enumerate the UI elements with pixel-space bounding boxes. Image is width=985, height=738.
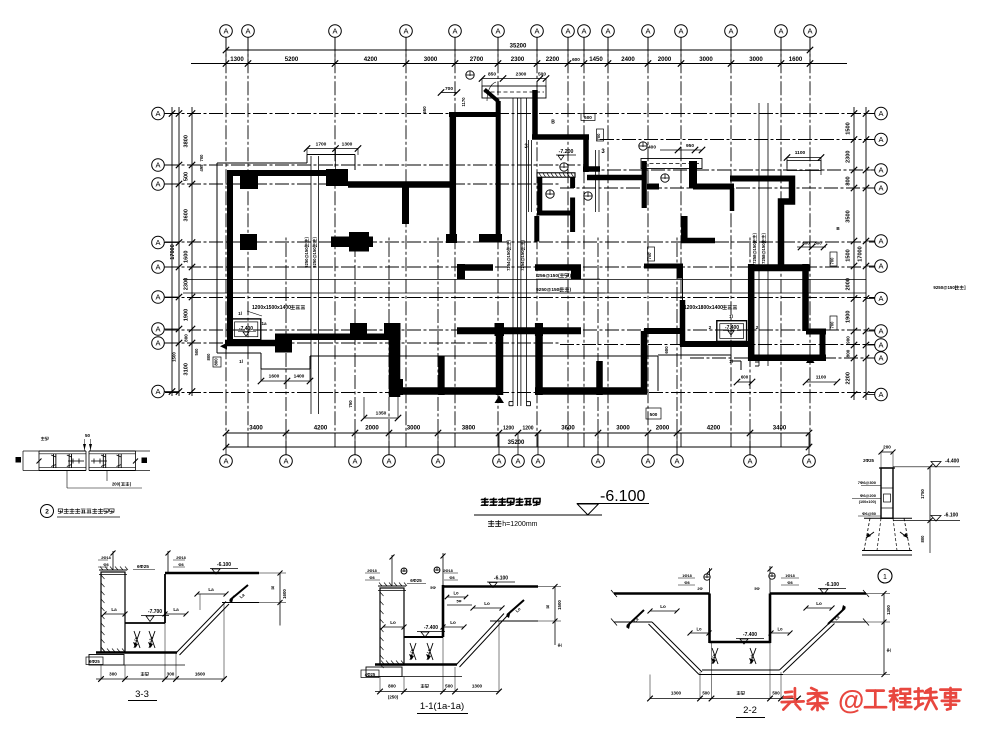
wall vertical x=644 (641, 331, 648, 393)
svg-text:Lo: Lo (777, 627, 783, 632)
svg-text:A: A (155, 339, 160, 348)
wall vertical x=441.4 (438, 356, 445, 395)
svg-text:800: 800 (184, 334, 189, 342)
svg-text:3-3: 3-3 (135, 689, 149, 700)
column/pier at 349,232 (349, 232, 369, 252)
svg-text:-7.400: -7.400 (725, 325, 739, 331)
svg-text:2000: 2000 (656, 425, 670, 432)
svg-text:2Φ18: 2Φ18 (443, 569, 452, 573)
svg-text:200(: 200( (112, 482, 121, 487)
svg-text:3800: 3800 (462, 425, 476, 432)
svg-text:La: La (173, 607, 179, 612)
svg-text:7254@150(: 7254@150( (520, 248, 525, 270)
svg-text:Lo: Lo (450, 620, 456, 625)
svg-text:5200: 5200 (285, 56, 299, 63)
svg-text:600: 600 (664, 346, 669, 354)
svg-text:750: 750 (348, 400, 353, 408)
svg-text:-6.100: -6.100 (944, 513, 958, 519)
svg-text:1: 1 (883, 574, 887, 581)
wall horizontal y=169 (583, 166, 600, 172)
svg-text:200: 200 (883, 445, 891, 450)
svg-text:3400: 3400 (249, 425, 263, 432)
column/pier at 689,161 (689, 161, 697, 189)
right beam hat detail (641, 143, 824, 175)
right axis circles (866, 107, 887, 401)
drawing title (474, 488, 649, 528)
left dimension chain (169, 107, 219, 396)
svg-text:3500: 3500 (846, 210, 852, 222)
column/pier at 388.8,340 (389, 340, 401, 397)
detail 1 wall section (852, 445, 960, 584)
svg-text:300: 300 (109, 672, 117, 677)
svg-text:1300: 1300 (671, 691, 682, 696)
svg-text:Lo: Lo (816, 601, 822, 606)
column/pier at 331,236.5 (331, 237, 373, 248)
svg-text:A: A (245, 27, 250, 36)
svg-text:4Φ25: 4Φ25 (365, 672, 376, 677)
svg-text:A: A (747, 457, 752, 466)
top dimension chain (191, 44, 847, 67)
svg-text:1Φ18: 1Φ18 (785, 574, 794, 578)
wall vertical x=684.3 (681, 216, 688, 243)
svg-text:A: A (283, 457, 288, 466)
wall vertical x=805.5 (802, 264, 809, 331)
svg-text:3000: 3000 (616, 425, 630, 432)
svg-text:1600: 1600 (195, 672, 206, 677)
svg-text:Lo: Lo (696, 627, 702, 632)
svg-text:1600: 1600 (789, 56, 803, 63)
bottom axis circles (220, 433, 816, 467)
svg-text:(100x100): (100x100) (859, 500, 877, 504)
svg-text:800: 800 (920, 535, 925, 543)
svg-text:2: 2 (45, 509, 49, 516)
column/pier at 457,264 (457, 264, 465, 279)
column/pier at 494.5,323 (495, 323, 505, 336)
svg-text:A: A (535, 457, 540, 466)
svg-text:7258@150(: 7258@150( (752, 241, 757, 263)
svg-text:700: 700 (830, 257, 835, 265)
svg-text:A: A (403, 27, 408, 36)
wall vertical x=536.8 (534, 216, 539, 242)
svg-text:9250@150[: 9250@150[ (933, 285, 956, 290)
left axis circles (152, 107, 179, 398)
column/pier at 395,379 (395, 379, 403, 395)
svg-text:A: A (878, 135, 883, 144)
svg-text:500: 500 (445, 684, 453, 689)
svg-text:Φ6@200: Φ6@200 (860, 493, 877, 498)
column/pier at 240,172 (240, 172, 258, 189)
svg-text:1l: 1l (239, 359, 243, 364)
svg-text:A: A (728, 27, 733, 36)
svg-text:9250@150(: 9250@150( (536, 287, 561, 293)
wall horizontal y=173 (227, 170, 348, 176)
wall horizontal y=344 (680, 341, 754, 347)
wall horizontal y=137 (532, 134, 589, 140)
svg-text:3800: 3800 (184, 135, 190, 147)
svg-text:La: La (208, 587, 214, 592)
wall vertical x=682.5 (680, 300, 686, 346)
svg-text:(250): (250) (388, 695, 399, 700)
svg-text:2Φ18: 2Φ18 (176, 556, 185, 560)
svg-text:-6.100: -6.100 (825, 582, 839, 588)
svg-text:1750: 1750 (920, 489, 925, 499)
wall vertical x=539.8 (537, 177, 542, 211)
right dimension chain (846, 107, 870, 400)
svg-text:A: A (495, 27, 500, 36)
svg-text:3100: 3100 (184, 363, 190, 375)
wall vertical x=535 (532, 90, 538, 137)
interior dim 1350 (348, 356, 401, 421)
svg-text:A: A (878, 327, 883, 336)
svg-text:Lo: Lo (390, 620, 396, 625)
svg-text:A: A (878, 390, 883, 399)
svg-text:2200: 2200 (546, 56, 560, 63)
svg-text:A: A (878, 109, 883, 118)
top axis circles (220, 25, 817, 64)
svg-text:500: 500 (650, 412, 658, 417)
svg-text:800: 800 (814, 241, 822, 246)
svg-text:800: 800 (846, 176, 852, 185)
wall horizontal y=114.5 (449, 112, 497, 117)
svg-text:500: 500 (702, 691, 710, 696)
svg-text:1200x1500x1400: 1200x1500x1400 (252, 305, 291, 311)
svg-text:Φ8: Φ8 (449, 576, 454, 580)
svg-text:800: 800 (214, 358, 219, 366)
svg-text:1300: 1300 (472, 684, 483, 689)
svg-text:4200: 4200 (707, 425, 721, 432)
svg-text:600: 600 (584, 115, 592, 120)
interior dim 1700 1300 (304, 142, 361, 173)
wall vertical x=452.8 (450, 112, 457, 239)
watermark (782, 685, 961, 715)
svg-text:1Φ18: 1Φ18 (682, 574, 691, 578)
svg-text:2300: 2300 (511, 56, 525, 63)
wall horizontal y=330.8 (457, 327, 581, 334)
column/pier at 479,234 (479, 234, 502, 243)
svg-text:2300: 2300 (516, 72, 527, 78)
wall horizontal y=331 (644, 328, 680, 334)
svg-text:495: 495 (199, 164, 204, 172)
svg-text:A: A (223, 457, 228, 466)
svg-text:500: 500 (194, 348, 199, 356)
svg-text:3000: 3000 (407, 425, 421, 432)
section cut lines center (506, 98, 531, 406)
svg-text:1600: 1600 (184, 251, 190, 263)
svg-text:1700: 1700 (316, 142, 327, 148)
column/pier at 647,183.5 (647, 184, 659, 190)
svg-text:1500: 1500 (172, 352, 177, 362)
svg-text:2700: 2700 (470, 56, 484, 63)
section 3 cut marks (524, 140, 605, 212)
svg-text:1400: 1400 (294, 374, 305, 380)
svg-text:1l: 1l (238, 311, 242, 316)
interior dim 1600 1400 (258, 369, 313, 384)
wall vertical x=822.5 (820, 331, 826, 358)
svg-text:3600: 3600 (561, 425, 575, 432)
wall vertical x=586 (583, 137, 589, 172)
svg-text:400: 400 (648, 145, 656, 151)
wall horizontal y=343 (225, 340, 285, 347)
svg-text:4200: 4200 (314, 425, 328, 432)
wall vertical x=572.6 (570, 198, 575, 233)
svg-text:2Φ18: 2Φ18 (101, 556, 110, 560)
svg-text:7254@150(: 7254@150( (506, 248, 511, 270)
svg-text:1200x1800x1400: 1200x1800x1400 (684, 305, 723, 311)
svg-text:35200: 35200 (510, 44, 527, 50)
svg-text:1200: 1200 (503, 426, 514, 432)
rebar text labels center (536, 273, 605, 293)
detail 2 lap splice (16, 433, 151, 518)
svg-text:1-1(1a-1a): 1-1(1a-1a) (420, 701, 464, 712)
svg-text:Φ8: Φ8 (103, 563, 108, 567)
svg-text:600: 600 (741, 375, 749, 380)
svg-text:1300: 1300 (886, 605, 891, 615)
wall horizontal y=213 (537, 211, 575, 216)
svg-text:800: 800 (846, 349, 851, 357)
svg-text:1l: 1l (729, 314, 733, 319)
grid center lines (165, 37, 875, 455)
wall horizontal y=267.5 (457, 264, 493, 271)
svg-text:A: A (645, 457, 650, 466)
svg-text:2-2: 2-2 (743, 705, 757, 716)
svg-text:Lo: Lo (453, 591, 459, 596)
section 3-3 (86, 551, 287, 701)
svg-text:3000: 3000 (424, 56, 438, 63)
svg-text:700: 700 (830, 321, 835, 329)
svg-text:A: A (878, 294, 883, 303)
wall vertical x=539 (535, 330, 543, 395)
svg-text:2: 2 (709, 325, 712, 331)
svg-text:9250@150(: 9250@150( (312, 245, 317, 267)
left sump pit (232, 305, 305, 364)
svg-text:700: 700 (445, 86, 453, 92)
svg-text:700: 700 (596, 133, 601, 141)
svg-text:A: A (435, 457, 440, 466)
svg-text:Φ6@50: Φ6@50 (862, 511, 877, 516)
svg-text:A: A (605, 27, 610, 36)
column/pier at 275,333.5 (275, 334, 292, 353)
plan elevation marks and symbols (466, 71, 669, 200)
plan structural walls (225, 90, 826, 398)
svg-text:6Φ25: 6Φ25 (137, 564, 149, 570)
svg-text:-7.400: -7.400 (743, 632, 757, 638)
column/pier at 571,267 (571, 267, 581, 279)
svg-text:2300: 2300 (846, 151, 852, 163)
wall vertical x=498.2 (496, 101, 501, 234)
rebar strip lines left (304, 156, 319, 414)
section 2-2 (611, 566, 891, 718)
svg-text:A: A (515, 457, 520, 466)
svg-text:-7.400: -7.400 (424, 625, 438, 631)
wall horizontal y=391 (403, 387, 496, 395)
svg-text:9250@150(: 9250@150( (304, 245, 309, 267)
column/pier at 350,323 (350, 323, 367, 340)
svg-text:A: A (878, 341, 883, 350)
wall horizontal y=267.8 (748, 264, 810, 271)
svg-text:600: 600 (572, 57, 580, 62)
svg-text:A: A (332, 27, 337, 36)
svg-text:A: A (565, 27, 570, 36)
wall vertical x=230 (227, 170, 233, 346)
svg-text:5Φ: 5Φ (430, 585, 436, 590)
svg-text:Φ8: Φ8 (787, 581, 792, 585)
svg-text:1500: 1500 (846, 249, 852, 261)
svg-text:2Φ: 2Φ (697, 587, 702, 591)
svg-text:A: A (778, 27, 783, 36)
svg-text:2000: 2000 (365, 425, 379, 432)
svg-text:A: A (223, 27, 228, 36)
svg-text:3600: 3600 (184, 209, 190, 221)
column/pier at 446,234 (446, 234, 457, 243)
plan arrow markers (220, 343, 815, 403)
wall vertical x=644.2 (642, 161, 647, 208)
svg-text:A: A (645, 27, 650, 36)
right sump pit (684, 305, 759, 364)
svg-text:A: A (534, 27, 539, 36)
interior dims lower right (213, 346, 840, 419)
svg-text:A: A (878, 354, 883, 363)
section 1-1 (361, 553, 562, 714)
svg-text:Φ8: Φ8 (684, 581, 689, 585)
wall horizontal y=357.8 (748, 355, 826, 362)
svg-text:2400: 2400 (621, 56, 635, 63)
bottom dimension chain (223, 425, 812, 451)
svg-text:1600: 1600 (282, 589, 287, 599)
svg-text:A: A (595, 457, 600, 466)
svg-text:Lo: Lo (660, 604, 666, 609)
svg-text:4200: 4200 (364, 56, 378, 63)
svg-text:A: A (674, 457, 679, 466)
svg-text:500: 500 (538, 72, 546, 78)
svg-text:@: @ (838, 685, 864, 715)
svg-text:900: 900 (846, 336, 851, 344)
column/pier at 384,323 (384, 323, 401, 340)
svg-text:1100: 1100 (816, 375, 827, 381)
svg-text:1l: 1l (729, 359, 733, 364)
wall horizontal y=267.5 (535, 264, 581, 271)
svg-text:300: 300 (167, 672, 175, 677)
svg-text:A: A (155, 238, 160, 247)
svg-text:A: A (155, 387, 160, 396)
svg-text:2Φ25: 2Φ25 (863, 458, 874, 463)
svg-text:-7.400: -7.400 (239, 326, 253, 332)
svg-text:h=1200mm: h=1200mm (502, 521, 537, 528)
wall horizontal y=178.5 (730, 176, 795, 182)
svg-text:5Φ: 5Φ (754, 587, 759, 591)
column/pier at 240,234 (240, 234, 257, 250)
wall vertical x=599.5 (596, 361, 603, 395)
svg-text:3000: 3000 (749, 56, 763, 63)
svg-text:Φ8: Φ8 (178, 563, 183, 567)
svg-text:1900: 1900 (846, 311, 852, 323)
column/pier at 402,187 (402, 187, 409, 224)
svg-text:A: A (155, 161, 160, 170)
svg-text:7Φ6@300: 7Φ6@300 (858, 480, 877, 485)
svg-text:Φ8: Φ8 (369, 576, 374, 580)
svg-text:B: B (551, 120, 555, 126)
svg-text:17000: 17000 (170, 244, 176, 260)
svg-text:2200: 2200 (846, 372, 852, 384)
svg-text:3000: 3000 (699, 56, 713, 63)
wall horizontal y=177.5 (587, 175, 644, 181)
wall horizontal y=240.5 (681, 238, 715, 244)
top beam hat detail (422, 72, 549, 114)
svg-text:-6.100: -6.100 (600, 488, 645, 505)
svg-text:A: A (878, 237, 883, 246)
svg-text:5Φ: 5Φ (457, 600, 462, 604)
svg-text:1300: 1300 (342, 142, 353, 148)
rebar band lines (183, 280, 866, 294)
wall vertical x=499.5 (496, 330, 504, 395)
svg-text:1900: 1900 (184, 309, 190, 321)
svg-text:A: A (878, 262, 883, 271)
svg-text:A: A (581, 27, 586, 36)
svg-text:Lo: Lo (484, 601, 490, 606)
svg-text:A: A (386, 457, 391, 466)
svg-text:1170: 1170 (461, 97, 466, 107)
svg-text:2: 2 (756, 325, 759, 331)
svg-text:1450: 1450 (589, 56, 603, 63)
svg-text:700: 700 (647, 252, 652, 260)
svg-text:1a: 1a (261, 321, 267, 326)
wall horizontal y=184.5 (348, 181, 452, 188)
svg-text:A: A (352, 457, 357, 466)
svg-text:A: A (155, 109, 160, 118)
wall horizontal y=336.8 (292, 334, 395, 341)
svg-text:6Φ25: 6Φ25 (410, 578, 422, 583)
interior small labels (551, 114, 966, 331)
svg-text:La: La (111, 607, 117, 612)
svg-text:800: 800 (388, 684, 396, 689)
svg-text:2Φ18: 2Φ18 (367, 569, 376, 573)
svg-text:-7.700: -7.700 (148, 609, 162, 615)
svg-text:1300: 1300 (230, 56, 244, 63)
svg-text:A: A (878, 166, 883, 175)
svg-text:6Φ25: 6Φ25 (89, 659, 100, 664)
svg-text:700: 700 (199, 154, 204, 162)
column/pier at 534.9,323 (535, 323, 543, 336)
svg-text:A: A (878, 184, 883, 193)
svg-text:1500: 1500 (846, 122, 852, 134)
svg-text:800: 800 (206, 353, 211, 361)
svg-text:A: A (155, 180, 160, 189)
section cut lines right (752, 103, 768, 366)
svg-text:A: A (678, 27, 683, 36)
svg-text:-6.100: -6.100 (217, 562, 231, 568)
svg-text:500: 500 (184, 172, 190, 181)
svg-text:2000: 2000 (658, 56, 672, 63)
wall horizontal y=266 (644, 264, 681, 269)
wall vertical x=751.2 (748, 264, 755, 361)
column/pier at 326,169 (326, 169, 348, 186)
wall horizontal y=186.5 (693, 184, 734, 190)
svg-text:A: A (496, 457, 501, 466)
svg-text:850: 850 (488, 72, 496, 78)
svg-text:1500: 1500 (557, 600, 562, 610)
svg-text:1350: 1350 (376, 411, 387, 417)
svg-text:-6.100: -6.100 (494, 576, 508, 582)
wall horizontal y=331.5 (806, 329, 826, 335)
svg-text:950: 950 (686, 143, 694, 149)
svg-text:500: 500 (772, 691, 780, 696)
svg-text:A: A (806, 457, 811, 466)
svg-text:35200: 35200 (508, 440, 525, 446)
svg-text:1200: 1200 (522, 426, 533, 432)
svg-text:1600: 1600 (269, 374, 280, 380)
svg-text:1100: 1100 (795, 150, 806, 156)
svg-text:A: A (155, 293, 160, 302)
wall vertical x=572.6 (570, 177, 575, 188)
